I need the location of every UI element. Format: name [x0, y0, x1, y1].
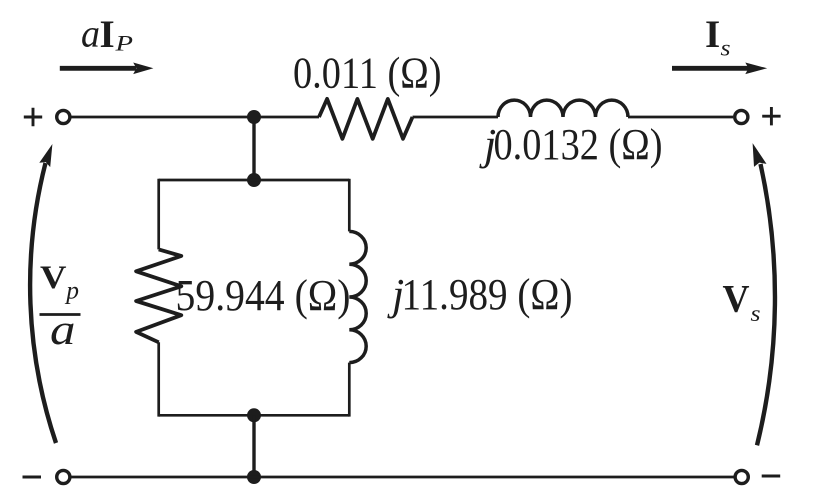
svg-text:0.0132 (Ω): 0.0132 (Ω) — [494, 120, 663, 169]
resistor R2 (magnetizing branch, vertical) — [136, 249, 181, 342]
value label 0.011 (Ω) for R1 — [293, 49, 442, 98]
svg-text:p: p — [64, 276, 79, 305]
node junction bottom wire — [247, 470, 261, 484]
inductor L2 (magnetizing branch, vertical) — [349, 231, 366, 362]
svg-text:s: s — [751, 301, 761, 326]
svg-text:I: I — [100, 13, 115, 56]
current arrow aIP — [60, 63, 154, 75]
node junction shunt box top — [247, 173, 261, 187]
wire top-left segment — [71, 116, 320, 119]
value label 59.944 (Ω) for R2 — [176, 271, 351, 320]
svg-text:a: a — [81, 13, 100, 56]
wire shunt box top edge — [159, 179, 350, 182]
resistor R1 (series) — [319, 99, 413, 139]
current label aIP — [81, 13, 133, 56]
svg-text:I: I — [705, 13, 720, 56]
wire shunt box right edge lower — [348, 363, 351, 417]
wire between R1 and L1 — [413, 116, 499, 119]
wire vertical from top node to shunt box — [252, 117, 255, 180]
wire bottom — [71, 476, 734, 479]
svg-text:0.011 (Ω): 0.011 (Ω) — [293, 49, 442, 98]
terminal top-right — [735, 110, 748, 123]
svg-text:a: a — [50, 307, 76, 354]
terminal bottom-right — [735, 470, 748, 483]
minus sign bottom-left — [23, 476, 42, 479]
value label j0.0132 (Ω) for L1 — [479, 120, 663, 169]
svg-text:V: V — [40, 260, 67, 296]
wire shunt box bottom edge — [159, 414, 350, 417]
svg-text:P: P — [114, 31, 133, 56]
wire top-right segment — [628, 116, 733, 119]
wire shunt box left edge upper — [157, 179, 160, 250]
wire shunt box right edge upper — [348, 179, 351, 232]
minus sign bottom-right — [762, 475, 781, 478]
node junction shunt box bottom — [247, 408, 261, 422]
terminal top-left — [57, 110, 70, 123]
node junction top wire — [247, 110, 261, 124]
voltage label Vp over a — [40, 260, 81, 354]
svg-text:V: V — [723, 278, 750, 321]
svg-text:11.989 (Ω): 11.989 (Ω) — [402, 270, 573, 319]
wire vertical from shunt box to bottom wire — [252, 415, 255, 477]
voltage label Vs — [723, 278, 761, 327]
wire shunt box left edge lower — [157, 342, 160, 416]
inductor L1 (series) — [498, 100, 628, 117]
svg-text:s: s — [721, 35, 731, 60]
value label j11.989 (Ω) for L2 — [387, 270, 573, 319]
terminal bottom-left — [57, 470, 70, 483]
voltage arrow right (Vs) — [753, 143, 775, 445]
current arrow Is — [672, 63, 767, 75]
current label Is — [705, 13, 731, 61]
plus sign top-right — [762, 107, 780, 125]
svg-text:59.944 (Ω): 59.944 (Ω) — [176, 271, 351, 320]
plus sign top-left — [24, 108, 42, 126]
voltage arrow left (Vp/a) — [30, 144, 56, 443]
